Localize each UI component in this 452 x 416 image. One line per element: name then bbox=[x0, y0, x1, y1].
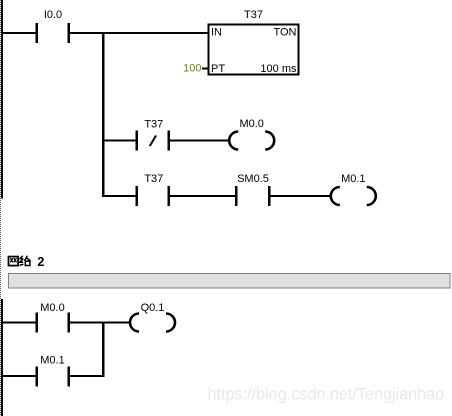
svg-text:TON: TON bbox=[273, 27, 296, 39]
timer T37 box (TON) bbox=[208, 25, 298, 75]
wire: branch to contact T37 (row 2) bbox=[104, 140, 136, 142]
network 2 title: 网络 2 bbox=[9, 256, 31, 266]
wire: PT input tick bbox=[202, 68, 209, 70]
wire: rail to contact I0.0 bbox=[3, 32, 36, 34]
wire: contact M0.1 to branch vertical bbox=[70, 375, 105, 377]
svg-text:SM0.5: SM0.5 bbox=[237, 173, 269, 185]
svg-text:100 ms: 100 ms bbox=[260, 63, 297, 75]
wire: contact I0.0 to timer T37 IN input bbox=[70, 32, 209, 34]
contact M0.1 (normally open) bbox=[36, 367, 70, 387]
contact SM0.5 (normally open) bbox=[235, 186, 271, 206]
contact T37 (row 3, normally open) bbox=[135, 186, 170, 206]
svg-text:100: 100 bbox=[183, 63, 201, 75]
coil M0.0 bbox=[229, 132, 274, 150]
network 2 comment bar bbox=[9, 274, 451, 289]
wire: branch vertical (network 2) bbox=[102, 322, 105, 378]
svg-text:2: 2 bbox=[37, 255, 44, 269]
wire: contact T37 to coil M0.0 bbox=[170, 140, 229, 142]
contact M0.0 (normally open) bbox=[36, 313, 70, 333]
svg-text:T37: T37 bbox=[144, 119, 163, 131]
wire: rail to contact M0.1 bbox=[3, 375, 36, 377]
coil M0.1 bbox=[331, 187, 376, 205]
svg-text:https://blog.csdn.net/Tengjian: https://blog.csdn.net/Tengjianhao bbox=[208, 386, 445, 404]
svg-text:M0.0: M0.0 bbox=[40, 302, 64, 314]
coil Q0.1 bbox=[130, 314, 175, 332]
svg-text:Q0.1: Q0.1 bbox=[141, 302, 165, 314]
svg-text:I0.0: I0.0 bbox=[44, 9, 62, 21]
svg-text:T37: T37 bbox=[244, 9, 263, 21]
svg-text:PT: PT bbox=[211, 63, 225, 75]
left power rail (network 2) bbox=[1, 299, 3, 416]
wire: contact SM0.5 to coil M0.1 bbox=[270, 195, 330, 197]
wire: branch to contact T37 (row 3) bbox=[104, 195, 136, 197]
wire: branch vertical (network 1) bbox=[102, 32, 105, 197]
wire: contact T37 to contact SM0.5 bbox=[170, 195, 235, 197]
contact I0.0 (normally open) bbox=[36, 23, 70, 43]
svg-text:T37: T37 bbox=[144, 173, 163, 185]
wire: rail to contact M0.0 bbox=[3, 322, 36, 324]
left power rail (network 1) bbox=[1, 0, 3, 199]
svg-text:M0.1: M0.1 bbox=[40, 355, 64, 367]
svg-text:M0.0: M0.0 bbox=[239, 118, 263, 130]
svg-text:M0.1: M0.1 bbox=[341, 173, 365, 185]
wire: contact M0.0 to coil Q0.1 bbox=[70, 322, 130, 324]
contact T37 (normally closed) bbox=[135, 131, 170, 151]
svg-text:IN: IN bbox=[211, 27, 222, 39]
